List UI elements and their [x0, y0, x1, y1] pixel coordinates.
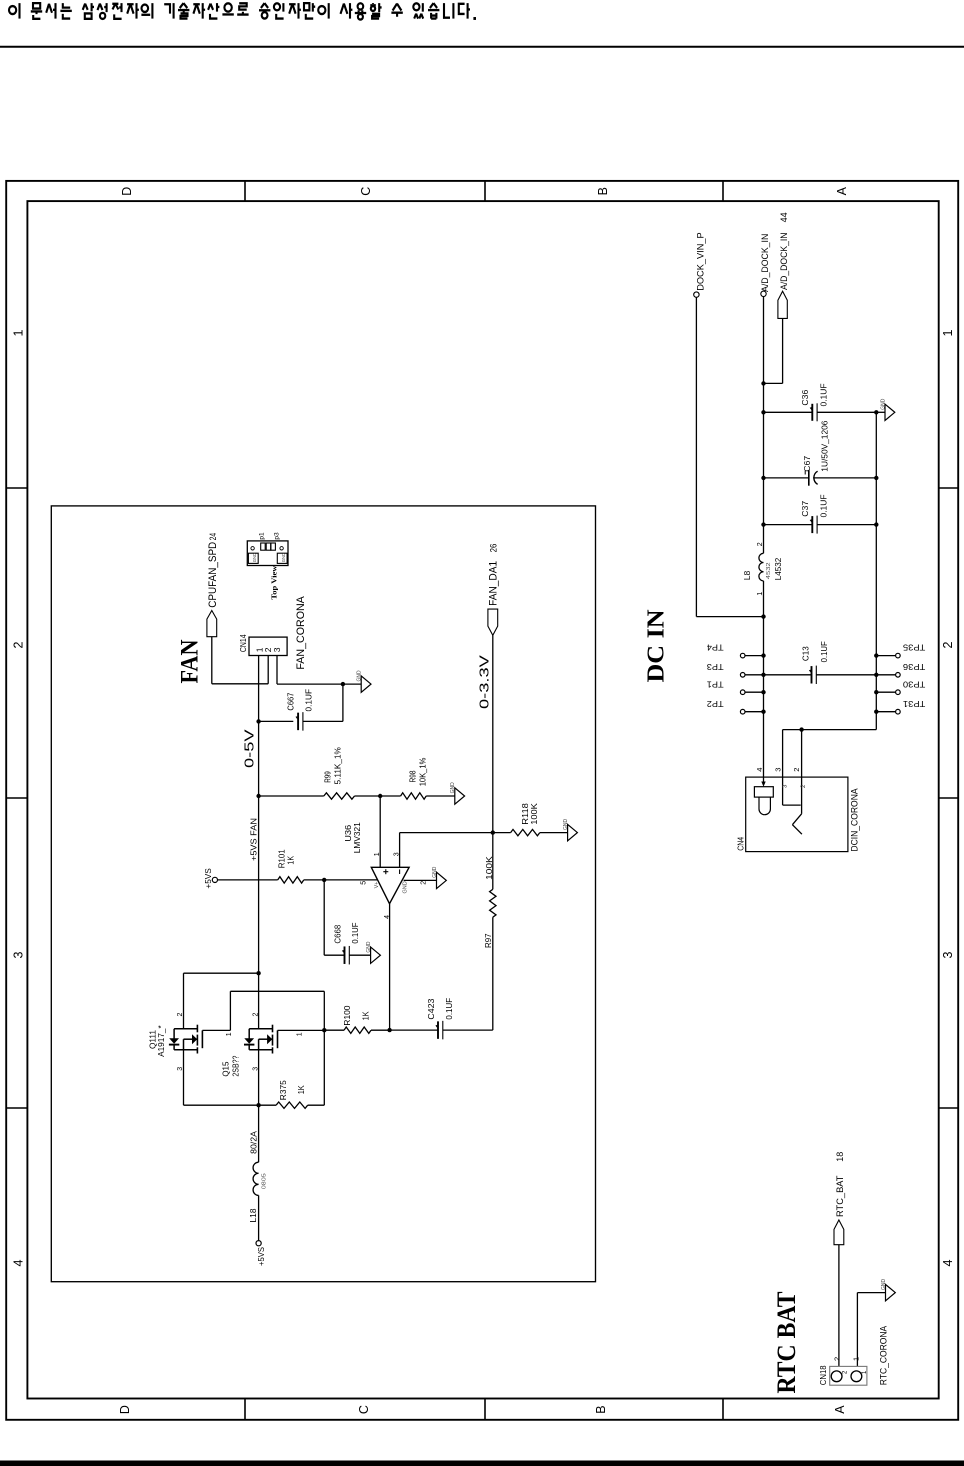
svg-text:Q15: Q15	[221, 1061, 231, 1076]
svg-text:3: 3	[12, 951, 26, 958]
svg-text:TP36: TP36	[902, 662, 925, 671]
wire	[764, 382, 783, 384]
wire right rail to CN4	[783, 729, 877, 731]
op-amp pin 2 wire	[404, 879, 437, 881]
test point TP1	[745, 691, 764, 693]
svg-text:D: D	[120, 187, 134, 196]
svg-text:4532: 4532	[766, 562, 772, 579]
wire	[426, 795, 455, 797]
resistor R99	[324, 793, 355, 799]
junction	[761, 522, 765, 526]
wire	[343, 683, 361, 685]
wire	[764, 411, 813, 413]
svg-text:1: 1	[852, 1357, 861, 1361]
svg-text:B: B	[596, 187, 610, 195]
net DC_IN right rail	[875, 412, 877, 729]
wire	[184, 972, 259, 974]
test point TP3	[745, 674, 764, 676]
Q111 drain wire	[183, 973, 185, 1029]
svg-text:Top View: Top View	[271, 564, 279, 599]
svg-text:CN4: CN4	[736, 837, 746, 851]
svg-text:L18: L18	[248, 1208, 258, 1222]
test point TP35	[876, 655, 895, 657]
junction	[322, 878, 326, 882]
junction	[799, 727, 803, 731]
svg-text:CPUFAN_SPD: CPUFAN_SPD	[207, 542, 219, 608]
wire	[782, 318, 784, 383]
svg-text:1: 1	[757, 592, 764, 596]
svg-text:TP35: TP35	[902, 643, 925, 652]
frame zone divider	[244, 1399, 246, 1420]
CN4 pin 3 wire	[782, 730, 784, 778]
transistor Q15	[249, 1028, 272, 1030]
connector CN18	[830, 1366, 867, 1385]
wire	[816, 674, 876, 676]
junction	[256, 794, 260, 798]
svg-text:GND: GND	[281, 553, 286, 562]
frame zone divider	[484, 181, 486, 201]
wire	[764, 477, 809, 479]
svg-text:C: C	[357, 1405, 371, 1414]
frame zone divider	[6, 487, 27, 489]
svg-text:RTC_CORONA: RTC_CORONA	[878, 1325, 889, 1385]
wire	[696, 616, 763, 618]
frame zone divider	[722, 1399, 724, 1420]
junction	[761, 653, 765, 657]
svg-text:R375: R375	[278, 1080, 288, 1100]
svg-text:1: 1	[374, 852, 381, 856]
junction	[341, 682, 345, 686]
svg-text:V+: V+	[374, 882, 380, 889]
ground symbol (R118)	[568, 824, 578, 840]
svg-text:2: 2	[757, 542, 764, 546]
wire	[184, 1104, 259, 1106]
wire	[355, 795, 381, 797]
frame zone divider	[6, 797, 27, 799]
svg-text:1: 1	[941, 329, 955, 336]
wire	[813, 477, 876, 479]
wire	[258, 1195, 260, 1240]
wire	[400, 832, 493, 834]
svg-text:C668: C668	[332, 924, 342, 943]
svg-text:A: A	[833, 1405, 847, 1414]
svg-text:2: 2	[12, 641, 26, 648]
svg-text:TP1: TP1	[706, 679, 723, 688]
svg-text:0.1UF: 0.1UF	[350, 923, 360, 944]
FAN block outline	[51, 506, 595, 1282]
junction	[874, 476, 878, 480]
wire	[695, 297, 697, 616]
wire	[764, 674, 812, 676]
op-amp pin 3 wire	[399, 833, 401, 868]
CN4 pin 2 wire	[801, 730, 803, 778]
wire	[838, 1245, 840, 1367]
wire	[277, 683, 343, 685]
resistor R97	[492, 833, 494, 890]
junction	[761, 381, 765, 385]
svg-text:+5VS: +5VS	[256, 1247, 266, 1266]
frame zone divider	[244, 181, 246, 201]
header korean notice text	[9, 3, 476, 20]
svg-text:0.1UF: 0.1UF	[304, 689, 314, 712]
junction	[322, 1028, 326, 1032]
wire	[324, 954, 344, 956]
svg-text:3: 3	[941, 951, 955, 958]
svg-text:100K: 100K	[484, 856, 494, 880]
svg-text:FAN: FAN	[175, 639, 204, 684]
svg-text:CN18: CN18	[818, 1365, 828, 1385]
svg-text:TP2: TP2	[706, 699, 723, 708]
svg-text:3: 3	[773, 768, 782, 772]
svg-text:C37: C37	[800, 501, 810, 517]
svg-text:A/D_DOCK_IN: A/D_DOCK_IN	[779, 232, 790, 290]
wire	[259, 720, 294, 722]
junction	[761, 410, 765, 414]
svg-text:DC IN: DC IN	[644, 609, 670, 683]
svg-text:C36: C36	[800, 389, 810, 405]
Q15 gate wire	[278, 1029, 325, 1031]
svg-text:B: B	[594, 1405, 608, 1413]
test point TP2	[745, 711, 764, 713]
op-amp U36	[371, 867, 409, 903]
ground symbol (CN14)	[361, 676, 371, 692]
port FAN_DA1	[488, 609, 498, 635]
power +5VS (bottom)	[256, 1241, 261, 1246]
svg-text:FAN_DA1: FAN_DA1	[488, 561, 500, 606]
svg-text:A1917_*: A1917_*	[156, 1025, 166, 1057]
frame zone divider	[6, 1107, 27, 1109]
svg-text:R97: R97	[483, 933, 493, 948]
svg-text:0.1UF: 0.1UF	[819, 384, 829, 407]
svg-text:1: 1	[12, 329, 26, 336]
svg-text:A: A	[835, 186, 849, 195]
svg-text:5: 5	[360, 881, 367, 885]
wire	[324, 879, 378, 881]
svg-text:LMV321: LMV321	[352, 822, 362, 853]
svg-text:RTC BAT: RTC BAT	[772, 1292, 801, 1394]
svg-text:FAN_CORONA: FAN_CORONA	[295, 596, 307, 670]
svg-text:2: 2	[792, 768, 801, 772]
svg-text:p1: p1	[259, 532, 266, 540]
connector CN14	[249, 637, 287, 655]
net stub DOCK_VIN_P	[694, 292, 699, 297]
frame zone divider	[939, 487, 959, 489]
ground symbol (U36)	[437, 872, 447, 888]
R375 branch wire	[323, 1030, 325, 1105]
svg-text:1: 1	[297, 1032, 304, 1036]
junction	[874, 410, 878, 414]
label C67 polarity minus	[804, 471, 806, 475]
svg-text:100K: 100K	[529, 803, 539, 825]
junction	[874, 690, 878, 694]
capacitor C667	[297, 713, 299, 731]
svg-text:p3: p3	[274, 532, 281, 540]
svg-text:44: 44	[779, 212, 790, 222]
junction	[256, 1103, 260, 1107]
junction	[256, 719, 260, 723]
schematic frame inner border	[27, 201, 938, 1398]
wire	[303, 720, 343, 722]
svg-text:26: 26	[489, 544, 499, 553]
gate net wires	[202, 1029, 230, 1031]
svg-text:GND: GND	[432, 866, 438, 878]
CN18 pin 1 wire	[856, 1293, 858, 1367]
svg-text:0805: 0805	[261, 1173, 267, 1189]
svg-text:D: D	[118, 1405, 132, 1414]
wire	[857, 1292, 885, 1294]
net 0-3.3V rail	[492, 635, 494, 832]
svg-text:C: C	[359, 187, 373, 196]
svg-text:L4532: L4532	[773, 557, 783, 580]
wire	[308, 1104, 325, 1106]
ground symbol (RTC)	[886, 1284, 896, 1300]
svg-text:DOCK_VIN_P: DOCK_VIN_P	[695, 232, 706, 291]
svg-text:1K: 1K	[296, 1085, 306, 1094]
svg-text:GND: GND	[366, 941, 372, 953]
svg-text:TP3: TP3	[706, 662, 723, 671]
junction	[874, 710, 878, 714]
test point TP36	[876, 674, 895, 676]
port A/D_DOCK_IN 44	[778, 291, 787, 318]
wire	[371, 1029, 390, 1031]
svg-text:0-5V: 0-5V	[243, 729, 257, 768]
svg-text:10K_1%: 10K_1%	[417, 757, 427, 786]
test point TP30	[876, 691, 895, 693]
junction	[761, 690, 765, 694]
svg-text:RTC_BAT: RTC_BAT	[835, 1175, 846, 1217]
svg-text:2: 2	[941, 641, 955, 648]
frame zone divider	[939, 1107, 959, 1109]
svg-text:0.1UF: 0.1UF	[819, 641, 829, 662]
svg-text:4: 4	[12, 1259, 26, 1266]
svg-text:5.11K_1%: 5.11K_1%	[333, 747, 343, 785]
transistor Q111	[174, 1028, 197, 1030]
op-amp U36 pin 1 wire	[379, 796, 381, 867]
wire	[390, 1029, 438, 1031]
svg-text:GND: GND	[357, 670, 363, 682]
junction	[874, 653, 878, 657]
wire	[349, 954, 370, 956]
svg-text:CN14: CN14	[238, 634, 248, 652]
junction	[761, 710, 765, 714]
ground symbol (R98)	[455, 788, 465, 804]
svg-text:TP31: TP31	[902, 699, 925, 708]
wire	[540, 832, 568, 834]
svg-text:+5VS: +5VS	[203, 868, 213, 889]
CN14 pin 2 lead	[267, 656, 269, 684]
svg-text:2: 2	[420, 881, 427, 885]
ground symbol (C668)	[371, 947, 381, 963]
wire	[324, 1029, 344, 1031]
svg-text:1K: 1K	[286, 856, 296, 865]
Q111 source wire	[183, 1050, 185, 1105]
svg-text:2: 2	[833, 1357, 842, 1361]
svg-text:2SB??: 2SB??	[230, 1055, 240, 1076]
port RTC_BAT	[834, 1220, 844, 1245]
wire	[342, 684, 344, 721]
junction	[256, 971, 260, 975]
svg-text:1U/50V_1206: 1U/50V_1206	[820, 420, 830, 471]
svg-text:C67: C67	[802, 456, 812, 472]
svg-text:TP30: TP30	[902, 679, 925, 688]
svg-text:C667: C667	[285, 692, 295, 710]
power +5VS (left)	[212, 877, 217, 882]
svg-text:80/2A: 80/2A	[249, 1131, 259, 1154]
svg-text:4: 4	[941, 1259, 955, 1266]
resistor R101	[278, 877, 304, 883]
junction	[874, 673, 878, 677]
junction	[378, 794, 382, 798]
wire	[764, 524, 813, 526]
svg-text:GND: GND	[880, 398, 886, 410]
wire	[817, 524, 876, 526]
capacitor C668	[344, 946, 346, 964]
wire	[218, 879, 278, 881]
frame zone divider	[484, 1399, 486, 1420]
svg-text:18: 18	[835, 1152, 846, 1162]
svg-text:GND: GND	[402, 881, 408, 893]
svg-text:+5VS FAN: +5VS FAN	[249, 818, 259, 861]
net rail to L18	[258, 1050, 260, 1162]
svg-text:A/D_DOCK_IN: A/D_DOCK_IN	[760, 234, 771, 292]
wire	[380, 795, 400, 797]
connector top-view detail	[247, 541, 288, 566]
svg-text:GND: GND	[450, 782, 456, 794]
svg-text:2: 2	[252, 1013, 259, 1017]
svg-text:TP4: TP4	[706, 643, 723, 652]
svg-text:GND: GND	[881, 1279, 887, 1291]
net stub A/D_DOCK_IN	[761, 291, 766, 296]
port CPUFAN_SPD	[207, 611, 217, 637]
svg-text:DCIN_CORONA: DCIN_CORONA	[850, 788, 861, 852]
capacitor C668 branch	[323, 880, 325, 955]
svg-text:R99: R99	[323, 771, 333, 783]
junction	[761, 673, 765, 677]
wire	[259, 1104, 277, 1106]
svg-text:GND: GND	[252, 553, 257, 562]
net DC_IN left rail	[763, 297, 765, 554]
svg-text:GND: GND	[563, 819, 569, 831]
junction	[761, 476, 765, 480]
CN14 pin 3 lead	[276, 656, 278, 685]
svg-text:C13: C13	[800, 646, 810, 661]
frame zone divider	[722, 181, 724, 201]
wire	[212, 683, 268, 685]
test point TP31	[876, 711, 895, 713]
svg-text:24: 24	[208, 533, 218, 541]
wire	[259, 795, 324, 797]
frame zone divider	[939, 797, 959, 799]
svg-text:1: 1	[226, 1032, 233, 1036]
svg-text:4: 4	[755, 768, 764, 772]
junction	[387, 1028, 391, 1032]
wire	[876, 411, 885, 413]
inductor L18	[253, 1162, 259, 1195]
header rule line	[0, 46, 964, 48]
connector CN4 (DC jack)	[746, 777, 848, 852]
net +5VS_FAN rail	[258, 656, 260, 1029]
op-amp pin 4 wire	[389, 904, 391, 1030]
svg-text:L8: L8	[742, 570, 752, 580]
svg-text:3: 3	[272, 647, 282, 652]
wire	[211, 637, 213, 684]
svg-text:R100: R100	[342, 1005, 352, 1025]
junction	[491, 830, 495, 834]
bottom page edge bar	[0, 1461, 964, 1466]
svg-text:R98: R98	[408, 770, 418, 782]
wire	[493, 832, 511, 834]
svg-text:C423: C423	[426, 998, 436, 1019]
inductor L8	[759, 553, 764, 581]
svg-text:1K: 1K	[361, 1011, 371, 1020]
wire	[443, 1029, 493, 1031]
svg-text:0.1UF: 0.1UF	[444, 998, 454, 1020]
wire	[304, 879, 324, 881]
junction	[761, 614, 765, 618]
wire	[817, 411, 876, 413]
junction	[874, 522, 878, 526]
svg-text:0.1UF: 0.1UF	[819, 495, 829, 518]
svg-text:0-3.3V: 0-3.3V	[478, 654, 492, 709]
resistor R98	[401, 793, 427, 799]
test point TP4	[745, 655, 764, 657]
